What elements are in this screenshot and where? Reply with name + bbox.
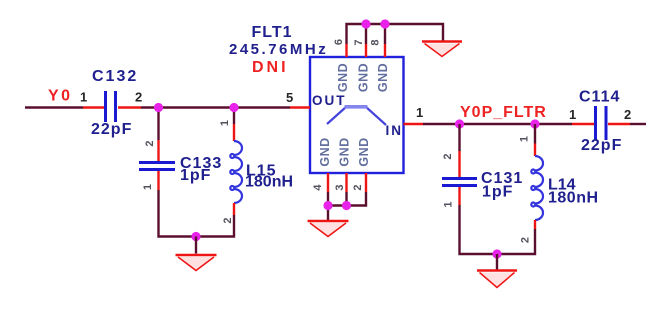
wire down from node to L15 bbox=[233, 108, 235, 125]
junction node at L15 top bbox=[229, 103, 238, 112]
pin 2 stub bbox=[365, 173, 367, 192]
svg-text:Y0: Y0 bbox=[48, 88, 73, 105]
svg-text:IN: IN bbox=[386, 123, 404, 138]
svg-text:8: 8 bbox=[369, 39, 381, 45]
svg-text:2: 2 bbox=[442, 153, 454, 159]
junction node right ground rail bbox=[492, 249, 501, 258]
svg-text:5: 5 bbox=[286, 90, 293, 105]
junction node at L14 top bbox=[530, 119, 539, 128]
svg-text:2: 2 bbox=[144, 140, 156, 146]
junction node bottom pin 3 bbox=[342, 201, 351, 210]
svg-text:GND: GND bbox=[337, 137, 351, 166]
wire stub to right ground bbox=[496, 254, 498, 270]
svg-text:GND: GND bbox=[356, 63, 370, 92]
filter symbol inside FLT1 bbox=[327, 107, 386, 125]
svg-text:1: 1 bbox=[442, 201, 454, 207]
wire Y0 net C132 to OUT pin bbox=[141, 106, 290, 108]
svg-text:1: 1 bbox=[518, 136, 530, 142]
wire C114 to right edge bbox=[630, 123, 646, 125]
svg-text:1: 1 bbox=[416, 105, 423, 120]
svg-text:C132: C132 bbox=[92, 68, 138, 85]
pin 1 stub (IN) bbox=[404, 123, 424, 125]
svg-text:2: 2 bbox=[222, 217, 234, 223]
capacitor C132 bbox=[83, 91, 141, 122]
wire Y0P_FLTR net bbox=[423, 123, 572, 125]
wire top GND net bbox=[347, 24, 444, 44]
pin 6 stub bbox=[345, 44, 347, 57]
wire stub to left ground bbox=[195, 237, 197, 254]
svg-text:6: 6 bbox=[333, 39, 345, 45]
svg-text:1pF: 1pF bbox=[482, 184, 513, 201]
svg-text:2: 2 bbox=[352, 184, 364, 190]
capacitor C131 bbox=[442, 151, 477, 205]
junction node top pin 7 bbox=[361, 19, 370, 28]
svg-text:GND: GND bbox=[357, 137, 371, 166]
svg-text:1: 1 bbox=[219, 120, 231, 126]
pin 8 stub bbox=[384, 44, 386, 57]
pin 3 stub bbox=[345, 173, 347, 192]
filter body U=FLT1 box bbox=[310, 57, 404, 173]
wire C131 bottom to right ground rail and up to L14 bbox=[460, 205, 536, 254]
svg-text:3: 3 bbox=[334, 184, 346, 190]
svg-text:1pF: 1pF bbox=[180, 167, 211, 184]
svg-text:GND: GND bbox=[318, 137, 332, 166]
svg-text:2: 2 bbox=[624, 107, 631, 122]
svg-text:1: 1 bbox=[569, 107, 576, 122]
svg-text:1: 1 bbox=[142, 184, 154, 190]
wire down from node to C133 bbox=[157, 108, 159, 141]
svg-text:OUT: OUT bbox=[312, 93, 347, 108]
pin 7 stub bbox=[365, 44, 367, 57]
pin 5 stub (OUT) bbox=[290, 106, 310, 108]
svg-text:FLT1: FLT1 bbox=[252, 24, 293, 41]
ground (below C133/L15) bbox=[176, 255, 217, 271]
wire stub to bottom ground bbox=[327, 206, 329, 221]
junction node top pin 8 bbox=[380, 19, 389, 28]
svg-text:4: 4 bbox=[312, 184, 324, 191]
svg-text:GND: GND bbox=[376, 63, 390, 92]
ground (below C131/L14) bbox=[477, 271, 517, 288]
svg-text:245.76MHz: 245.76MHz bbox=[229, 41, 328, 58]
junction node at C131 top bbox=[455, 119, 464, 128]
wire down from node to C131 bbox=[458, 124, 460, 151]
ground (below FLT1) bbox=[308, 221, 349, 237]
wire bottom GND net bbox=[328, 192, 366, 206]
wire top pin 8 stub upper bbox=[384, 24, 386, 44]
svg-text:GND: GND bbox=[336, 63, 350, 92]
junction node left ground rail bbox=[191, 232, 200, 241]
svg-text:180nH: 180nH bbox=[245, 174, 293, 191]
capacitor C133 bbox=[139, 140, 175, 190]
svg-text:C114: C114 bbox=[579, 89, 620, 106]
ground (top right of FLT1) bbox=[422, 42, 462, 57]
inductor L15 bbox=[230, 124, 242, 215]
wire down from node to L14 bbox=[534, 124, 536, 144]
svg-text:DNI: DNI bbox=[252, 59, 289, 76]
wire pin 3 lower stub bbox=[345, 192, 347, 206]
svg-text:2: 2 bbox=[519, 237, 531, 243]
svg-text:22pF: 22pF bbox=[91, 121, 132, 138]
inductor L14 bbox=[531, 144, 543, 230]
svg-text:2: 2 bbox=[135, 90, 142, 105]
svg-text:7: 7 bbox=[353, 39, 365, 45]
svg-text:180nH: 180nH bbox=[548, 190, 599, 207]
wire Y0 net left segment bbox=[25, 106, 83, 108]
svg-text:22pF: 22pF bbox=[581, 137, 622, 154]
junction node at C133 top bbox=[154, 103, 163, 112]
svg-text:Y0P_FLTR: Y0P_FLTR bbox=[460, 104, 547, 121]
capacitor C114 bbox=[572, 106, 630, 140]
wire C133 bottom to ground rail and up to L15 bbox=[159, 190, 235, 237]
junction node bottom pin 4 bbox=[323, 201, 332, 210]
wire top pin 7 stub upper bbox=[365, 24, 367, 44]
svg-text:1: 1 bbox=[80, 90, 87, 105]
pin 4 stub bbox=[327, 173, 329, 192]
